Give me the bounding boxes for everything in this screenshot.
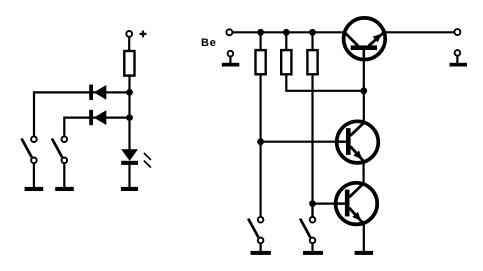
ground: below switch S3: [251, 251, 271, 255]
wire: diode D2 anode to rail, and left corner down to switch S2: [64, 118, 129, 137]
wire: rail to resistor R3 top: [285, 32, 287, 50]
wire: Q3 emitter to ground: [363, 224, 365, 252]
wire: switch S2 to ground: [63, 163, 65, 187]
resistor R3: [281, 50, 291, 74]
wire: Q1 base / Q2 collector vertical line: [363, 50, 365, 123]
wire: LED cathode to ground: [128, 165, 130, 188]
switch S2: [52, 136, 67, 163]
diode D2: [89, 110, 106, 125]
switch S3: [248, 217, 263, 243]
wire: switch S4 to ground: [311, 244, 313, 252]
wire: resistor R3 bottom, corner right to Q1 base line: [286, 75, 364, 91]
wire: resistor R2 bottom down to switch S3: [260, 75, 262, 217]
wire: R4 node down to switch S4: [311, 207, 313, 217]
node: junction D1/rail: [126, 89, 133, 96]
node: rail junction at R3: [283, 29, 290, 36]
wire: supply terminal to resistor R1: [128, 37, 130, 52]
ground: below switch S1: [25, 187, 44, 191]
label: + (supply polarity): [140, 31, 147, 38]
terminal: output right: [454, 29, 460, 35]
wire: Q2 emitter to Q3 collector: [363, 161, 365, 185]
terminal: positive supply: [126, 31, 132, 37]
wire: switch S3 to ground: [260, 244, 262, 252]
wire: diode D1 anode to rail, and left corner down to switch S1: [34, 92, 130, 137]
wire: Q2 base line from R2 column: [261, 141, 346, 143]
transistor Q3 (NPN): [336, 183, 378, 225]
wire: Q3 base line from R4 column: [313, 203, 346, 205]
ground terminal below output: [450, 50, 468, 66]
wire: resistor R4 bottom down to switch S4 (crosses Q2 base wire): [311, 75, 313, 217]
wire: rail to resistor R4 top: [311, 32, 313, 50]
switch S4: [300, 217, 315, 243]
diode D1: [89, 85, 106, 100]
terminal: Be input: [226, 29, 232, 35]
node: junction R3 wire with Q1 base line: [360, 87, 367, 94]
node: junction D2/rail: [126, 114, 133, 121]
resistor R4: [307, 50, 317, 74]
switch S1: [22, 136, 37, 163]
transistor Q2 (NPN): [337, 121, 379, 163]
ground: below Q3 emitter: [355, 251, 374, 255]
wire: Be rail to transistor Q1 collector: [233, 31, 346, 33]
node: junction R2 column / Q2 base: [257, 138, 264, 145]
ground terminal below Be: [222, 51, 240, 67]
wire: switch S1 to ground: [33, 163, 35, 187]
node: rail junction at R4: [309, 29, 316, 36]
node: rail junction at R2: [257, 29, 264, 36]
resistor R1: [124, 51, 134, 76]
resistor R2: [256, 50, 266, 74]
wire: resistor R1 bottom rail down to LED: [128, 76, 130, 151]
ground: below switch S2: [55, 187, 74, 191]
transistor Q1 (NPN, base down): [344, 18, 386, 60]
ground: below switch S4: [303, 251, 323, 255]
wire: Q1 emitter to output terminal: [384, 31, 454, 33]
LED D3: [121, 149, 151, 167]
label: Be: [201, 37, 217, 49]
wire: rail to resistor R2 top: [260, 32, 262, 50]
svg-text:Be: Be: [201, 37, 217, 49]
node: junction R4 column / Q3 base: [309, 200, 316, 207]
ground: below LED: [121, 187, 138, 191]
